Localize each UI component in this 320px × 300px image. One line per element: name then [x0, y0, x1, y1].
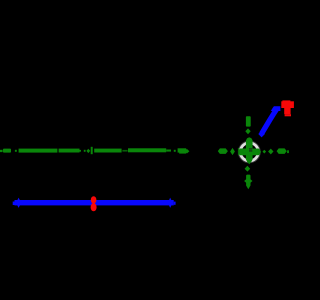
green cross horizontal road — [238, 149, 261, 156]
green arm east: lens dash — [277, 148, 287, 154]
green path west: dash 4 — [94, 149, 121, 153]
green cross vertical road — [246, 137, 253, 164]
blue route: west tip — [13, 202, 15, 206]
green arm west: diamond — [230, 148, 235, 155]
blue route diagonal — [262, 109, 277, 134]
green arm east: small diamond — [263, 150, 267, 154]
green path west: small diamond — [86, 149, 90, 153]
red T marker — [281, 100, 294, 116]
roundabout ring shadow — [239, 141, 260, 162]
thin tick west of ring — [238, 148, 239, 155]
blue route horizontal bar — [15, 200, 174, 205]
green path west: dash 3 — [59, 149, 80, 153]
green path west: dash 5 — [128, 148, 166, 152]
green path west: dot 1 — [15, 150, 17, 152]
green path west: dot 3 — [174, 150, 176, 152]
green path west: dot 2 — [84, 150, 86, 152]
blue route diagonal: arrowhead diamond — [258, 131, 265, 138]
green dashed path west: segment 1 — [0, 147, 189, 154]
green path west: tall tick — [91, 147, 93, 154]
green arm east: round diamond — [268, 149, 273, 155]
green path west: end dash — [178, 148, 187, 152]
green arm west: lens dash — [218, 148, 228, 154]
blue route diagonal: elbow block — [271, 106, 281, 111]
green arm north: diamond — [245, 128, 250, 134]
blue route: east arrow diamond — [168, 198, 173, 208]
green arm south: diamond — [245, 166, 251, 172]
blue route: east tip — [174, 202, 176, 205]
green arm east: end nub — [287, 150, 289, 153]
green path west: long dash 2 — [19, 149, 58, 153]
roundabout ring — [240, 143, 258, 161]
red gate figure-8 on blue route — [91, 196, 97, 211]
green path west: end diamond — [184, 149, 189, 154]
green path west: thin dim segment — [122, 150, 127, 152]
green arm south: dash with bulge — [246, 175, 250, 190]
cross centre dark marks — [249, 148, 252, 149]
green arm north: dash — [246, 116, 251, 126]
blue route: west arrow diamond — [16, 198, 21, 208]
